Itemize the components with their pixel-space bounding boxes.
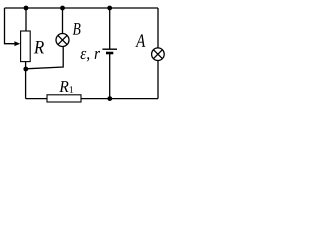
wire top bus xyxy=(5,7,159,9)
label B xyxy=(73,23,81,35)
wire bottom bus xyxy=(26,98,47,100)
wire lamp A to bottom right corner xyxy=(157,61,159,99)
resistor R1 box xyxy=(47,95,81,102)
wire left edge down to slider xyxy=(5,8,16,44)
label epsilon, r xyxy=(81,51,101,62)
resistor R (rheostat box) xyxy=(21,31,31,62)
wire battery bottom to node5 xyxy=(109,54,111,99)
battery long plate (positive) xyxy=(102,48,117,50)
battery short thick plate (negative) xyxy=(106,52,113,55)
node B (top junction to lamp B) xyxy=(60,6,65,11)
node C (top junction to battery) xyxy=(107,6,112,11)
node A (top junction to R) xyxy=(24,6,29,11)
wire right edge top to lamp A xyxy=(157,8,159,48)
label A xyxy=(135,34,145,47)
wire node1 to R top xyxy=(25,8,27,31)
node E (bottom junction to battery) xyxy=(107,96,112,101)
wire R bottom through node4 down to bottom bus xyxy=(25,62,27,99)
label R1 xyxy=(59,81,73,93)
node D (below R, junction to lamp B branch) xyxy=(23,67,28,72)
rheostat slider arrowhead xyxy=(14,41,20,46)
wire node2 to lamp B top xyxy=(62,8,64,34)
lamp B (circle with cross) xyxy=(56,34,69,47)
label R xyxy=(34,41,44,53)
wire node3 to battery top xyxy=(109,8,111,49)
wire bottom bus right of R1 xyxy=(81,98,158,100)
lamp A (circle with cross) xyxy=(152,48,165,61)
wire node4 to lamp B bottom xyxy=(26,46,63,68)
